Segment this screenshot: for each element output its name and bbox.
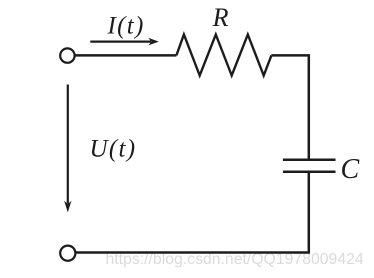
- svg-text:R: R: [212, 3, 229, 32]
- terminal T2 (bottom-left): [60, 246, 75, 261]
- svg-text:I(t): I(t): [107, 12, 145, 39]
- current arrow I(t) head: [148, 38, 159, 46]
- svg-text:C: C: [341, 154, 360, 185]
- resistor R1: [176, 35, 271, 76]
- capacitor C1 top plate: [283, 158, 336, 161]
- wire capacitor down and bottom to terminal: [76, 173, 309, 253]
- terminal T1 (top-left): [60, 48, 74, 62]
- wire top (terminal to resistor): [75, 54, 177, 57]
- current arrow I(t) line: [90, 40, 151, 42]
- wire resistor to top-right corner and down to capacitor: [271, 55, 308, 158]
- voltage arrow U(t) head: [64, 201, 71, 212]
- capacitor C1 bottom plate: [283, 170, 336, 173]
- svg-text:U(t): U(t): [90, 135, 137, 162]
- voltage arrow U(t) line: [67, 85, 69, 204]
